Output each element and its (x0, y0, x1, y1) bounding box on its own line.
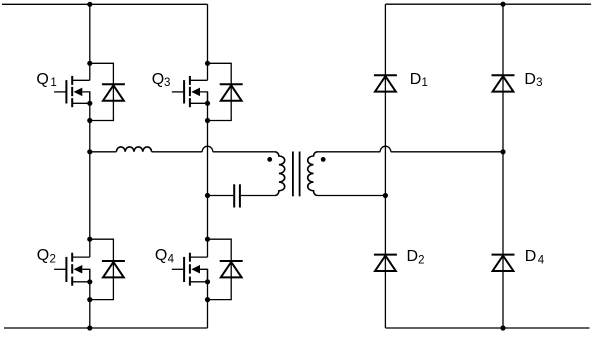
node: Q1 source stub junction (87, 101, 92, 106)
wire Q3 source to Q4 drain column (207, 92, 209, 257)
wire crossover to transformer primary top (213, 151, 275, 153)
diode D3 (492, 75, 515, 91)
node: bottom rail / Q2 source junction (87, 325, 92, 330)
transistor Q2 (54, 253, 90, 286)
wire D3/D4 column (502, 4, 504, 328)
node: Q4 source stub junction (205, 279, 210, 284)
svg-text:D: D (524, 71, 536, 88)
wire Q3 body-diode loop (208, 63, 232, 120)
svg-text:Q: Q (155, 247, 167, 264)
node: top rail / D3 cathode junction (500, 2, 505, 7)
svg-text:D: D (525, 248, 537, 265)
diode D2 (374, 255, 397, 271)
wire capacitor to transformer primary bottom (241, 195, 275, 197)
svg-text:2: 2 (418, 255, 424, 267)
svg-text:4: 4 (538, 255, 545, 267)
node: Q2 source stub junction (87, 279, 92, 284)
svg-text:D: D (407, 248, 419, 265)
wire crossover hop over leg-B column (202, 146, 213, 152)
node: Q3 source stub junction (205, 101, 210, 106)
svg-text:1: 1 (50, 77, 56, 89)
svg-text:3: 3 (164, 77, 170, 89)
wire Q4 source column (207, 269, 209, 328)
node: secondary top / D3-D4 midpoint (500, 149, 505, 154)
svg-text:Q: Q (36, 71, 48, 88)
wire leg-B midpoint to capacitor (208, 195, 234, 197)
svg-text:2: 2 (50, 254, 56, 266)
wire Q2 source column (89, 269, 91, 328)
node: Q1 drain / body-diode top (87, 61, 92, 66)
wire Q1 drain column (89, 4, 91, 80)
transformer T1 primary phase dot (267, 157, 272, 162)
wire midpoint to inductor (90, 151, 117, 153)
svg-text:D: D (410, 71, 422, 88)
node: Q3 source / body-diode bottom (205, 118, 210, 123)
node: top rail / Q1 drain junction (87, 2, 92, 7)
svg-text:Q: Q (37, 247, 49, 264)
node: Q4 drain / body-diode top (205, 237, 210, 242)
wire secondary top lead to D3/D4 midpoint (391, 151, 503, 153)
wire top-left input rail (+) (2, 3, 208, 5)
diode body-diode of Q4 (220, 261, 243, 277)
svg-text:4: 4 (168, 254, 175, 266)
node: Q1 source / body-diode bottom (87, 118, 92, 123)
diode body-diode of Q3 (220, 84, 243, 100)
node: Q2 drain / body-diode top (87, 237, 92, 242)
diode body-diode of Q2 (102, 261, 125, 277)
node: leg-A midpoint / inductor input (87, 149, 92, 154)
transformer T1 secondary winding (308, 152, 318, 196)
wire bottom-left input rail (-) (4, 327, 208, 329)
wire crossover hop over D1/D2 column (380, 146, 391, 152)
node: Q3 drain / body-diode top (205, 61, 210, 66)
svg-text:3: 3 (536, 77, 542, 89)
wire Q2 body-diode loop (90, 239, 114, 299)
capacitor C1 (DC blocking) (234, 184, 240, 207)
diode body-diode of Q1 (102, 84, 125, 100)
diode D4 (492, 255, 515, 271)
node: leg-B midpoint / capacitor junction (205, 193, 210, 198)
svg-text:Q: Q (152, 71, 164, 88)
wire top-right output rail (+) (385, 3, 591, 5)
inductor L1 (116, 147, 151, 152)
wire inductor to crossover (152, 151, 203, 153)
node: Q2 source / body-diode bottom (87, 297, 92, 302)
wire Q3 drain column (207, 4, 209, 80)
transformer T1 secondary phase dot (321, 157, 326, 162)
node: Q4 source / body-diode bottom (205, 297, 210, 302)
wire Q1 source to Q2 drain column (89, 92, 91, 257)
transistor Q1 (54, 76, 90, 107)
wire D1/D2 column (384, 4, 386, 328)
wire secondary bottom lead to D1/D2 midpoint (318, 195, 386, 197)
wire Q1 body-diode loop (90, 63, 114, 120)
diode D1 (374, 75, 397, 91)
node: secondary bottom / D1-D2 midpoint (383, 193, 388, 198)
transistor Q3 (172, 76, 208, 107)
svg-text:1: 1 (422, 77, 428, 89)
transformer T1 primary winding (275, 152, 285, 196)
wire Q4 body-diode loop (208, 239, 232, 299)
wire bottom-right output rail (-) (385, 327, 589, 329)
transistor Q4 (172, 253, 208, 286)
wire secondary top lead to crossover (318, 151, 381, 153)
transformer T1 core (293, 152, 300, 197)
node: bottom rail / D4 anode junction (500, 325, 505, 330)
